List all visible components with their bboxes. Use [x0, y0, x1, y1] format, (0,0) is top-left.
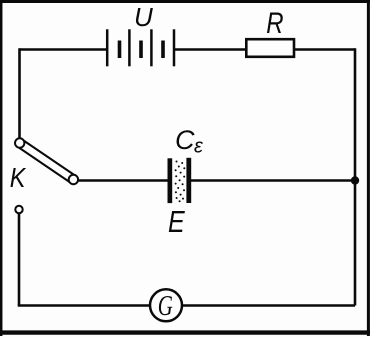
- svg-text:K: K: [10, 163, 26, 193]
- svg-text:U: U: [134, 2, 153, 32]
- svg-text:ε: ε: [194, 136, 204, 158]
- svg-text:R: R: [266, 5, 283, 39]
- svg-text:G: G: [158, 290, 173, 322]
- svg-text:E: E: [168, 205, 185, 239]
- svg-text:C: C: [175, 125, 195, 155]
